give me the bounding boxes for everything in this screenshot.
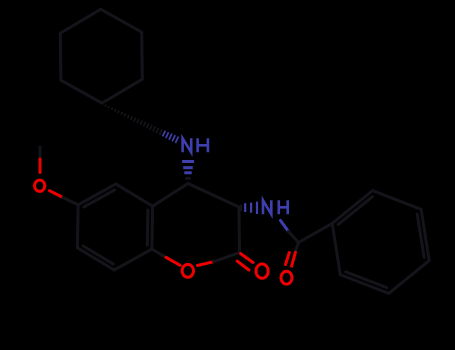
- hashed wedge C3-N2: [240, 205, 242, 211]
- wire O1-C2 red half: [198, 262, 214, 266]
- phenyl2 ring (benzoyl): [332, 191, 429, 294]
- wire C4-C3: [188, 184, 239, 208]
- hashed wedge bond cyclohexyl-N1: [105, 105, 178, 143]
- hashed wedge N1-C4: [182, 162, 194, 173]
- label NH1: [183, 138, 208, 152]
- wire C3-C2: [238, 207, 242, 253]
- methoxy O-C6 red half: [50, 191, 64, 198]
- bond N2-Camide blue half: [281, 221, 289, 232]
- label O methoxy: [35, 180, 45, 191]
- wire O1-C2 dark half: [214, 253, 240, 262]
- label NH2: [263, 200, 288, 214]
- benzo ring of chromanone: [77, 184, 152, 270]
- methoxy CH3-O dark half: [39, 147, 42, 159]
- methoxy CH3-O red half: [39, 159, 42, 173]
- bond Camide-phenyl2: [299, 223, 333, 242]
- wire C8a-O1 red half: [166, 257, 180, 265]
- methoxy O-C6 dark half: [63, 198, 78, 205]
- wire C8a-O1 dark half: [152, 249, 166, 257]
- label O1 lactone ring: [182, 264, 193, 277]
- bond N2-Camide dark half: [289, 232, 299, 243]
- lactone C2=O2 double bond: [237, 254, 253, 270]
- cyclohexyl ring (top-left): [60, 9, 142, 103]
- amide C=O3 double bond: [296, 243, 299, 252]
- label O2 lactone carbonyl: [256, 264, 268, 278]
- wire C4a-C4: [153, 184, 188, 207]
- label O3 amide carbonyl: [281, 271, 292, 284]
